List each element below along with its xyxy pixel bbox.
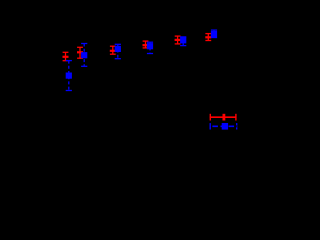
red errorbar point 1 (63, 52, 69, 60)
blue errorbar point 4 (147, 42, 153, 53)
legend blue entry (210, 123, 238, 130)
red errorbar point 6 (205, 34, 211, 41)
blue errorbar point 3 (115, 44, 121, 58)
legend red entry (210, 114, 237, 121)
blue errorbar point 5 (180, 37, 186, 46)
blue errorbar point 6 (211, 30, 217, 37)
red errorbar point 4 (143, 41, 149, 48)
red errorbar point 5 (175, 36, 181, 44)
red errorbar point 2 (77, 47, 83, 58)
blue errorbar point 1 (66, 61, 72, 91)
red errorbar point 3 (110, 46, 116, 54)
blue errorbar point 2 (81, 44, 87, 67)
